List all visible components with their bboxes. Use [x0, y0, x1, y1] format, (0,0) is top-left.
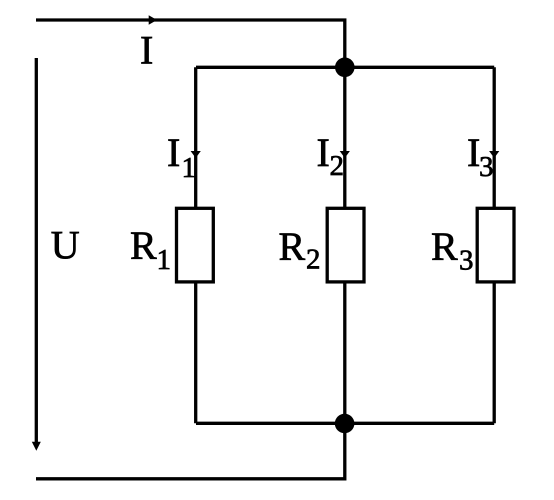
wire: branch 2 upper	[343, 67, 346, 208]
arrowhead current I3	[489, 151, 499, 158]
wire: branch 1 upper	[194, 67, 197, 208]
svg-text:R: R	[279, 224, 306, 269]
arrowhead current I1	[191, 151, 201, 158]
resistor R2	[327, 208, 364, 282]
svg-text:I: I	[317, 130, 330, 175]
wire: top rail	[196, 66, 494, 69]
svg-text:U: U	[51, 223, 80, 268]
resistor R1	[177, 208, 214, 282]
resistor R3	[477, 208, 514, 282]
node: top junction	[335, 58, 355, 78]
svg-text:R: R	[130, 223, 157, 268]
wire: bottom rail	[196, 422, 494, 425]
wire: branch 1 lower	[194, 283, 197, 423]
wire: branch 3 upper	[493, 67, 496, 208]
wire: top feed from source to top junction	[36, 20, 345, 67]
node: bottom junction	[335, 414, 355, 434]
svg-text:1: 1	[182, 152, 197, 184]
wire: bottom return to source	[36, 423, 345, 479]
svg-text:R: R	[431, 224, 458, 269]
svg-text:1: 1	[157, 244, 172, 276]
svg-text:I: I	[140, 28, 153, 73]
wire: branch 2 lower	[343, 283, 346, 423]
svg-text:2: 2	[330, 150, 345, 182]
arrowhead current I2	[340, 151, 350, 158]
svg-text:2: 2	[306, 244, 321, 276]
voltage arrow line U	[35, 58, 38, 442]
svg-text:3: 3	[459, 245, 474, 277]
svg-text:3: 3	[479, 151, 494, 183]
arrowhead voltage U	[32, 442, 41, 451]
wire: branch 3 lower	[493, 283, 496, 423]
svg-text:I: I	[167, 130, 180, 175]
arrowhead current I	[149, 15, 157, 24]
